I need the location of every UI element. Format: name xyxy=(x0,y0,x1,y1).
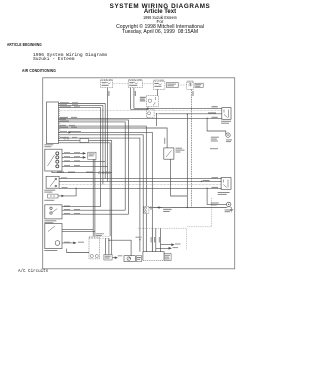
wire row A1 xyxy=(59,104,106,179)
label B5 xyxy=(60,125,66,126)
connector pair CN3 xyxy=(105,172,110,174)
A/C switch block2 xyxy=(221,178,231,190)
article beginning xyxy=(7,42,42,47)
lamp L1 xyxy=(48,194,58,198)
dual pressure switch dashed box xyxy=(144,206,149,213)
wire rail row D1 xyxy=(59,178,221,180)
fuse bus dashed link xyxy=(113,84,187,86)
svg-text:HOT AT ALL TIMES: HOT AT ALL TIMES xyxy=(187,80,194,83)
blower switch S1 xyxy=(45,149,62,171)
wire vertical labels xyxy=(151,237,152,243)
wire S3 row2 xyxy=(62,209,125,211)
label W108a xyxy=(212,106,218,107)
block1 label text xyxy=(221,121,231,122)
wire S2 branch xyxy=(64,188,76,196)
label D1 xyxy=(61,177,67,178)
relay R3 lower dashed box xyxy=(147,109,155,117)
condenser fan motor M2 box xyxy=(124,256,135,262)
M2 label text xyxy=(137,257,141,258)
label arrow b xyxy=(173,247,179,248)
fuse F1 value xyxy=(102,82,106,83)
wire S3 row3 xyxy=(62,213,129,215)
label S3r1 xyxy=(64,206,70,207)
wire pressure box bottom xyxy=(145,213,147,251)
connector pair CN2 xyxy=(98,172,104,174)
junction dot D2 xyxy=(201,181,202,182)
label B1b near switch xyxy=(212,117,218,118)
wire row B2 xyxy=(59,120,129,214)
header title xyxy=(11,3,309,10)
junction dot S4 xyxy=(187,207,188,208)
label above C1 drop xyxy=(136,237,142,238)
wire row B5 xyxy=(59,126,147,206)
label B3 xyxy=(60,121,69,122)
wire M1 out arrow xyxy=(62,242,76,244)
label MH2 xyxy=(74,160,80,161)
wire rail row D2 xyxy=(59,180,202,182)
label S3r3b xyxy=(74,213,80,214)
thermo switch S4 xyxy=(164,148,174,159)
label S2b xyxy=(212,187,219,188)
junction box G1 label xyxy=(44,144,53,145)
wire relay R1 to A/C switch xyxy=(134,107,222,109)
connector box CN1 xyxy=(88,152,96,159)
clutch text left xyxy=(211,137,219,138)
wire dashed row G1 to A/C switch xyxy=(59,109,222,111)
wire M1 out2 xyxy=(67,249,89,253)
bottom arrow a xyxy=(161,244,174,246)
label A3 xyxy=(60,106,71,107)
clutch text right xyxy=(226,139,232,140)
wire band to relay box a xyxy=(104,238,106,254)
ECM label text xyxy=(165,255,170,256)
fuse F3 value xyxy=(154,83,158,84)
C1 connector pair xyxy=(64,137,69,139)
wire S4 down xyxy=(171,159,188,196)
wire fuse F1 drop xyxy=(107,88,109,182)
wire row B1 to A/C switch xyxy=(59,117,222,119)
label W108b xyxy=(212,108,218,109)
wire row A2 xyxy=(59,106,103,185)
junction dot loop2 xyxy=(206,188,207,189)
wire M1 aux a xyxy=(62,228,93,230)
relay R2 compressor relay xyxy=(147,96,159,107)
wire S1 row LO arrow xyxy=(62,153,85,155)
ECM label box xyxy=(164,253,171,260)
wire fuse F2 drop a xyxy=(130,88,132,110)
wire row B6 to thermo switch xyxy=(59,128,168,148)
connector CN1 text xyxy=(89,154,95,155)
label B4 xyxy=(60,131,67,132)
wire S1 row MH xyxy=(62,161,105,163)
fuse F3 label text xyxy=(167,84,176,85)
S4 vertical wire label xyxy=(164,138,165,144)
S3 text xyxy=(44,220,56,221)
wire S1 row HI xyxy=(62,165,108,167)
wire dashed-rect pins to ECM xyxy=(152,228,160,252)
wire M1 aux b xyxy=(62,230,95,232)
dashed link from block2 xyxy=(186,198,211,227)
heater relay text xyxy=(105,256,111,257)
fuse F3 box xyxy=(153,81,165,89)
svg-text:HOT AT ALL TIMES: HOT AT ALL TIMES xyxy=(129,78,143,81)
pressure switch arrow xyxy=(157,207,161,209)
wire vertical V187 xyxy=(186,114,188,208)
wire rail row D3 dashed xyxy=(59,184,221,186)
wire D2 dashed tail xyxy=(202,180,222,182)
wire fuse F2 drop b xyxy=(133,88,135,109)
label HI xyxy=(64,165,70,166)
label B1 xyxy=(60,117,68,118)
wire relay R2 to A/C switch xyxy=(158,113,222,115)
fan sw text below xyxy=(225,210,232,211)
wire row C3 into small box xyxy=(59,140,81,142)
lamp L1 glyph xyxy=(50,195,55,197)
wire CN1 drop a xyxy=(92,159,94,236)
wire block2 loop to fan switch xyxy=(207,188,226,204)
wire R2 out stub xyxy=(156,114,158,126)
label F2 drop xyxy=(135,91,136,96)
label F1 drop wire color xyxy=(108,91,109,96)
fan sw text left xyxy=(211,203,219,204)
wire block1 loop to clutch xyxy=(207,118,226,135)
diode D1 box xyxy=(187,82,194,89)
condenser fan dashed box xyxy=(89,237,100,259)
wire diode drop (dash-dot) xyxy=(191,89,193,207)
junction dot S2 xyxy=(75,188,76,189)
wire fan motor feed xyxy=(109,240,131,256)
wire fuse F3 drop xyxy=(157,89,159,95)
label ML xyxy=(64,156,70,157)
mode switch S3 xyxy=(45,205,62,219)
label S3r2 xyxy=(64,209,70,210)
label C1 xyxy=(60,137,68,138)
junction box G1 heater control connector xyxy=(47,102,59,144)
S2 text xyxy=(44,190,55,191)
fuse F1 box xyxy=(101,81,113,88)
small box C3 xyxy=(80,139,89,143)
label arrow a xyxy=(175,244,181,245)
wire row C4 xyxy=(59,143,111,237)
A/C switch block1 xyxy=(222,108,231,120)
wire row B3 xyxy=(59,122,126,210)
figure caption xyxy=(18,270,48,274)
pressure switch label xyxy=(150,207,153,208)
dashed band bus xyxy=(89,236,109,238)
label LO xyxy=(64,152,70,153)
junction dot relay xyxy=(147,108,148,109)
junction dot V187 top xyxy=(187,113,188,114)
lamp L1 arrow xyxy=(58,195,64,197)
bottom arrow b xyxy=(156,247,171,249)
label A2 xyxy=(60,104,67,105)
wire row B4 xyxy=(59,132,153,251)
wire band to relay box b xyxy=(108,238,110,254)
label B6 xyxy=(60,127,68,128)
wire S2 out long row xyxy=(59,187,221,189)
label S3r3 xyxy=(64,213,70,214)
label MH xyxy=(64,160,70,161)
fuse F2 value xyxy=(129,82,133,83)
wire relay vertical xyxy=(147,107,149,119)
diagram frame xyxy=(43,78,235,269)
label ML2 xyxy=(74,156,80,157)
B4 connector glyph xyxy=(68,132,71,134)
wire S1 row ML arrow xyxy=(62,157,85,159)
label D1b xyxy=(212,177,219,178)
label A1 xyxy=(60,102,69,103)
wire S1 common row xyxy=(52,171,112,173)
label S3r2b xyxy=(74,209,80,210)
junction dot R2 out xyxy=(156,113,157,114)
wire row B7 xyxy=(59,135,144,252)
wire CN1 drop b xyxy=(94,159,96,236)
dashed rect path ECM xyxy=(138,228,186,250)
svg-text:HOT AT ALL TIMES: HOT AT ALL TIMES xyxy=(101,78,113,81)
label common2 xyxy=(68,172,75,173)
sub switch S2 xyxy=(46,176,59,188)
block2 label text xyxy=(218,192,230,193)
wire row A3 xyxy=(59,108,101,207)
fuse F3 label box xyxy=(167,83,179,88)
label HI2 xyxy=(74,165,80,166)
label diode drop xyxy=(193,91,194,96)
arrow to fan motor xyxy=(113,257,118,259)
label W114 xyxy=(208,112,216,113)
heater relay label box xyxy=(104,255,112,261)
ground wire xyxy=(149,207,227,209)
label LO2 xyxy=(74,152,80,153)
diode D1 label text xyxy=(196,84,202,85)
L1 text xyxy=(44,200,54,201)
M1 text xyxy=(44,250,57,251)
wire row C1 xyxy=(59,138,140,252)
wire row 109.4 xyxy=(131,108,148,110)
block2 pin dots xyxy=(221,178,222,179)
relay label text block xyxy=(140,97,146,98)
label fan arrow xyxy=(118,254,123,257)
ground symbol G2 xyxy=(230,208,234,212)
label common xyxy=(57,172,64,173)
fuse F2 box xyxy=(128,81,142,88)
ECM box xyxy=(143,252,164,261)
wire S3 row1 xyxy=(62,206,101,208)
label B2 xyxy=(60,119,66,120)
fan switch circle xyxy=(227,202,231,206)
label M1 xyxy=(64,242,70,243)
label M1b xyxy=(78,242,84,243)
wire circle to ground xyxy=(227,206,232,209)
label D2 xyxy=(203,180,210,181)
S4 label xyxy=(176,148,183,149)
M2 label box xyxy=(136,256,141,262)
band labels xyxy=(96,233,104,234)
G1 pin ticks xyxy=(59,104,61,141)
diode D1 label box xyxy=(195,83,203,87)
blower motor M1 box xyxy=(45,224,62,249)
label S2 xyxy=(62,187,68,188)
junction dot C1 xyxy=(139,239,140,240)
junction dot loop xyxy=(206,118,207,119)
label common3 xyxy=(86,172,93,173)
wire row C2 continuation xyxy=(89,141,112,255)
compressor clutch coil xyxy=(226,133,230,137)
junction dot fan feed xyxy=(108,240,109,241)
